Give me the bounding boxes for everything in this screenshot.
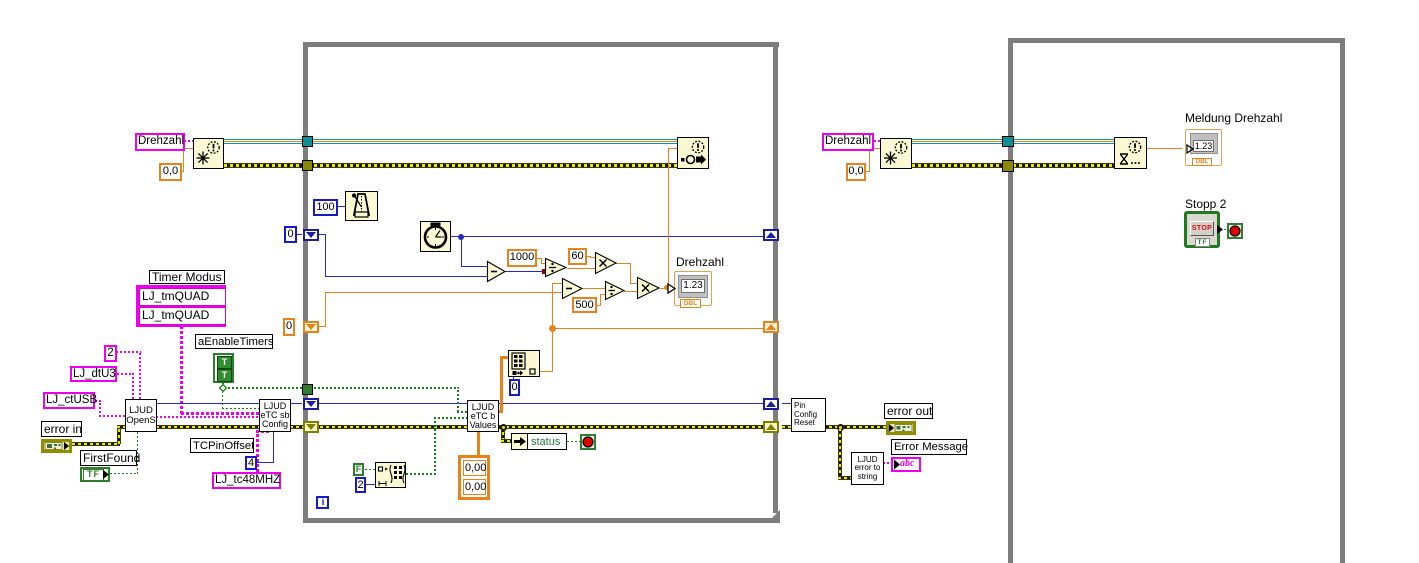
wire orange divide2 to multiply2 bottom input [624, 291, 637, 292]
wire green dotted FirstFound to OpenS [110, 473, 138, 474]
numeric constant 100 [313, 199, 338, 216]
wire orange multiply1 out elbow down to multiply2 top input [616, 263, 631, 264]
shift register orange down loop1 left [303, 321, 319, 333]
numeric constant 0,0 (2) [846, 163, 866, 181]
string constant 2 [104, 345, 117, 362]
wire notifier refnum band: node1 to loop1 [224, 139, 304, 144]
string indicator abc Error Message [891, 457, 921, 472]
tunnel olive loop1 left (error in) [302, 160, 313, 171]
wire green dotted F const to init array [365, 469, 375, 470]
label Error Message [891, 439, 967, 455]
wire orange array eTC values up to index array [498, 410, 503, 413]
wait on notification node [1114, 137, 1147, 169]
wire magenta stub Drehzahl2 to node2 [874, 140, 880, 142]
numeric constant 60 [568, 248, 587, 265]
shift register olive down loop1 left (error) [303, 421, 319, 433]
label error in [41, 421, 82, 437]
label Meldung Drehzahl [1185, 112, 1282, 125]
wire orange 0,0 elbow to node2 [865, 171, 870, 172]
wire notifier refnum band inside loop1 [308, 139, 679, 144]
wire blue inside loop1 to eTC values and right SR [314, 403, 769, 404]
wire orange 1000 elbow to divide1 top input [537, 258, 542, 259]
wire error inside loop1 to right SR [314, 425, 769, 429]
string constant LJ_tc48MHZ [212, 472, 281, 489]
wire magenta stub Drehzahl1 to node1 [184, 140, 193, 142]
junction dot blue at tick count [458, 234, 464, 240]
coercion dot red at divide1 [542, 269, 547, 274]
loop2 left border [1008, 38, 1013, 563]
error in cluster constant [41, 439, 72, 453]
numeric indicator Drehzahl DBL [674, 271, 712, 306]
subVI LJUD eTC b Values [467, 400, 499, 432]
wire orange 60 elbow to multiply1 top input [587, 256, 591, 257]
initialize array node [375, 462, 406, 488]
wire error junction at Pin Config Reset [837, 424, 844, 431]
string control Drehzahl 1 [135, 133, 185, 151]
iteration terminal i loop1 [316, 496, 329, 509]
loop1 right border [773, 42, 778, 513]
numeric constant 0 (orange) [283, 318, 295, 336]
label error out [884, 403, 933, 419]
wire orange vertical from send notification node down to junction [668, 148, 669, 288]
string control Drehzahl 2 [822, 133, 874, 151]
tunnel olive loop2 left [1002, 160, 1014, 172]
junction diamond green [219, 384, 227, 392]
wire error dashed inside loop1 top [308, 163, 678, 168]
tunnel green loop1 left (bool array) [302, 384, 313, 395]
subtract node 1 [487, 261, 506, 282]
boolean array constant aEnableTimers [213, 353, 234, 383]
wire magenta dotted scalar below array wire [156, 416, 259, 418]
subtract node 2 [562, 278, 583, 299]
tunnel teal loop2 left [1002, 136, 1014, 147]
loop1 top border [303, 42, 779, 47]
wire blue right SR to Pin Config Reset [782, 403, 791, 404]
loop1 bottom border [303, 518, 780, 523]
wire error Pin Config Reset to error out [823, 425, 886, 429]
send notification node [677, 137, 709, 169]
obtain notifier node 2 [880, 138, 912, 169]
loop1 left border [303, 42, 308, 523]
wire green dashed diamond to loop tunnel [228, 387, 303, 389]
obtain notifier node 1 [193, 138, 224, 169]
wire error dashed: node1 to loop1 [224, 163, 304, 168]
wire error OpenS to Config [156, 425, 260, 429]
wire orange subtract2 to divide2 [583, 288, 605, 289]
wire magenta array LJ_tc48MHZ up to Config bottom [256, 432, 259, 472]
wire green dotted status to stop sign [567, 441, 580, 442]
numeric constant 2 (blue) [355, 477, 366, 493]
label Drehzahl (indicator) [676, 256, 724, 269]
tunnel teal loop1 left (notifier in) [302, 136, 313, 147]
wire error in icon to OpenS [72, 442, 120, 446]
wire magenta dotted LJ_ctUSB into OpenS [95, 400, 101, 402]
subVI LJUD OpenS [125, 399, 157, 432]
label TCPinOffset [190, 438, 254, 453]
junction dot orange branch to right tunnel [549, 325, 556, 332]
wire magenta array from LJ_tmQUAD down to Config [180, 327, 183, 414]
wire notifier refnum band: node2 to loop2 [912, 139, 1009, 144]
wire magenta dotted 2-const into OpenS [116, 351, 141, 353]
multiply node 1 [595, 252, 617, 274]
unbundle by name status [511, 433, 567, 450]
wire green dashed init array to eTC values [406, 473, 436, 475]
label aEnableTimers [195, 334, 273, 349]
wire orange array eTC values down to 0,00 constant [477, 431, 480, 456]
stop sign terminal loop2 [1227, 223, 1243, 239]
shift register orange up loop1 right [763, 321, 779, 333]
loop2 right border [1340, 38, 1345, 563]
wait until next ms multiple node (metronome) [345, 191, 378, 221]
junction dot orange at indicator [664, 285, 669, 290]
wire error dashed: node2 to loop2 [912, 163, 1009, 168]
wire magenta array OpenS to Config horizontal [181, 412, 259, 415]
wire blue 4 elbow to Config bottom [257, 462, 274, 463]
wire blue OpenS to Config to loop (LocalID) [156, 403, 302, 404]
wire magenta stub error-to-string to Error Message [883, 462, 891, 464]
numeric constant 0,0 (1) [159, 163, 182, 181]
index array node [508, 350, 540, 377]
loop1 corner resize glyph [767, 510, 781, 524]
label Timer Modus [149, 270, 225, 284]
boolean indicator TF FirstFound [80, 467, 110, 482]
boolean constant F [353, 463, 364, 476]
shift register blue up loop1 right bottom [763, 398, 779, 410]
wire error branch down to LJUD error to string [838, 429, 842, 479]
wire orange 0,0 elbow to node1 [181, 171, 184, 172]
subVI Pin Config Reset [791, 398, 826, 432]
wire orange index array out up to subtract2 top input [540, 371, 553, 372]
wire green dashed aEnableTimers down to diamond [222, 383, 224, 388]
shift register blue up loop1 right top [763, 229, 779, 241]
boolean control Stopp 2 (STOP button) [1184, 211, 1220, 248]
shift register blue down loop1 left top [303, 229, 319, 241]
wire green dashed tunnel to eTC values [314, 387, 459, 389]
wire green dotted diamond down to Config [222, 392, 223, 409]
array constant 0,00 [458, 455, 490, 500]
wire error right SR to Pin Config Reset [782, 425, 791, 429]
wire orange left orange shift reg to subtract2 bottom input [317, 326, 326, 327]
wire error branch down to unbundle [501, 429, 505, 441]
subVI LJUD error to string [851, 452, 884, 485]
subVI LJUD eTC sb Config [259, 399, 291, 432]
wire orange junction to right orange shift register [552, 328, 768, 329]
numeric indicator Meldung Drehzahl DBL [1185, 129, 1222, 166]
numeric constant 1000 [507, 249, 537, 267]
wire notifier refnum band inside loop2 [1013, 139, 1115, 144]
string constant LJ_ctUSB [43, 392, 95, 409]
shift register olive up loop1 right (error) [763, 421, 779, 433]
wire orange divide1 to multiply1 bottom input [567, 268, 595, 269]
wire blue index const to index array [513, 377, 514, 380]
wire orange wait node to Meldung indicator [1147, 148, 1182, 149]
wire magenta dotted LJ_dtU3 into OpenS [117, 373, 134, 375]
error out cluster indicator [886, 421, 916, 435]
label Stopp 2 [1185, 198, 1226, 211]
wire error Config to loop border [290, 425, 303, 429]
divide node 2 [605, 281, 625, 300]
wire blue 2 const to init array [366, 484, 375, 485]
wire orange 500 elbow to divide2 bottom input [597, 305, 601, 306]
numeric constant 0 (blue, top) [284, 226, 297, 243]
numeric constant 500 [572, 297, 597, 313]
wire blue 100 to metronome [337, 206, 345, 207]
numeric constant 0 (index) [509, 379, 520, 396]
wire blue shift reg to subtract1 bottom input [314, 234, 326, 235]
wire orange multiply2 out to indicator [660, 288, 674, 289]
shift register blue down loop1 left bottom [303, 398, 319, 410]
tick count clock node [420, 221, 451, 252]
wire error junction at eTC values [500, 424, 507, 431]
numeric constant 4 [245, 456, 257, 470]
string constant LJ_dtU3 [70, 366, 117, 382]
wire blue tick count out to right tunnel [451, 236, 768, 237]
wire blue branch down to subtract1 top input [461, 236, 462, 267]
multiply node 2 [637, 277, 660, 299]
stop sign terminal loop1 [580, 434, 596, 450]
wire green dotted Stopp2 to stop sign [1224, 229, 1228, 230]
divide node 1 [545, 258, 567, 277]
wire blue 0 const to left shift register [296, 234, 302, 235]
wire error dashed inside loop2 [1013, 163, 1115, 168]
label FirstFound [80, 450, 137, 466]
string array constant LJ_tmQUAD [136, 285, 226, 327]
loop2 top border [1008, 38, 1345, 43]
wire blue subtract1 to divide1 [505, 271, 545, 272]
